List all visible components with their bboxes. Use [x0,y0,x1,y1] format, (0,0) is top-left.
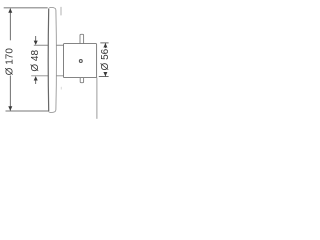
svg-text:Ø 170: Ø 170 [5,48,16,76]
dimension D170 extension top [4,7,48,9]
dimension D48 line top segment [35,36,37,41]
dimension D56 extension bottom [99,76,109,78]
wall line tick top [60,7,62,16]
label D56 text [100,48,111,72]
valve body Q1 (rectangle) [64,44,97,78]
escutcheon plate U1 (side view sliver) [48,8,56,113]
dimension D56 arrow down (inside) [103,72,107,76]
node A : Ø48 top extension / neck top line [34,44,64,46]
svg-text:Ø 48: Ø 48 [30,50,41,72]
pipe stem top [80,34,84,43]
dimension D56 extension top [100,42,108,44]
dimension D56 line [104,43,106,76]
dimension D170 arrow up [8,8,12,13]
dimension D48 arrow up (outside, below bottom ext) [34,76,38,80]
node B : Ø48 bottom extension / neck bottom line [31,75,63,77]
pipe stem bottom [80,78,83,83]
wire [31,45,63,76]
dimension D170 line [9,8,11,110]
dimension D48 arrow down (outside, above top ext) [34,41,38,45]
screw dot [79,60,82,63]
wall line tick middle (faint) [60,87,62,90]
stray vertical line below body right edge [96,78,98,119]
svg-text:Ø 56: Ø 56 [100,48,111,70]
dimension D170 arrow down [8,106,12,111]
dimension D56 arrow up (inside) [103,43,107,47]
dimension D48 line bottom segment [35,80,37,84]
label D48 text [30,50,41,72]
label D170 text [4,40,15,75]
dimension D170 extension bottom [6,110,49,112]
